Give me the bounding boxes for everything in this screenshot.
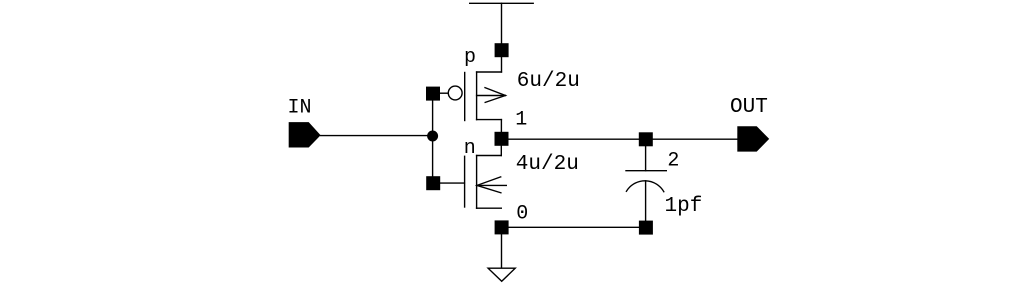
capacitor C1 top wire	[645, 146, 647, 171]
capacitor C1 bottom wire	[645, 181, 647, 221]
node 1 pin square	[495, 132, 509, 146]
wire pmos-drain to node1	[500, 120, 502, 132]
junction dot	[427, 131, 438, 142]
transistor N1 arrowhead	[477, 177, 501, 193]
wire IN	[321, 135, 433, 137]
transistor P1 top arm	[477, 71, 502, 73]
svg-text:1pf: 1pf	[665, 195, 703, 218]
capacitor C1 bottom plate arc	[626, 181, 663, 192]
svg-text:OUT: OUT	[730, 96, 768, 119]
svg-text:6u/2u: 6u/2u	[517, 70, 580, 93]
port OUT arrow	[737, 126, 769, 151]
pin square n-gate	[426, 176, 440, 190]
wire nmos-drain to node1	[500, 146, 502, 156]
svg-text:1: 1	[515, 109, 527, 132]
transistor P1 bottom arm	[477, 119, 502, 121]
wire power vertical	[501, 3, 503, 72]
node 0 pin square	[495, 220, 509, 234]
transistor N1 top arm	[477, 155, 502, 157]
svg-text:4u/2u: 4u/2u	[516, 153, 579, 176]
wire gate-p	[440, 92, 449, 94]
transistor P1 gate line	[464, 73, 466, 121]
wire to ground	[501, 234, 503, 268]
capacitor top pin square	[639, 132, 653, 146]
svg-text:n: n	[464, 137, 476, 160]
svg-text:IN: IN	[288, 97, 312, 120]
wire gate-n	[440, 182, 464, 184]
pin square p-gate	[426, 87, 440, 101]
transistor N1 arrow line	[477, 184, 506, 186]
power symbol VDD bar	[470, 2, 534, 4]
transistor N1 channel line	[476, 156, 478, 209]
transistor P1 gate bubble	[448, 86, 462, 100]
transistor N1 bottom arm	[477, 207, 502, 209]
capacitor bottom pin square	[639, 221, 653, 235]
wire OUT	[509, 138, 738, 140]
wire ground run	[509, 226, 639, 228]
transistor P1 channel line	[476, 72, 478, 120]
transistor N1 gate line	[464, 156, 466, 207]
svg-text:2: 2	[667, 149, 679, 172]
wire junction down	[432, 136, 434, 176]
wire junction up	[432, 101, 434, 136]
port IN arrow	[289, 122, 321, 147]
ground symbol	[488, 268, 515, 281]
transistor P1 arrowhead	[485, 88, 505, 103]
svg-text:p: p	[464, 46, 476, 69]
capacitor C1 top plate	[626, 170, 666, 172]
svg-text:0: 0	[516, 203, 528, 226]
transistor P1 arrow line	[477, 95, 506, 97]
pin square power	[495, 43, 509, 57]
